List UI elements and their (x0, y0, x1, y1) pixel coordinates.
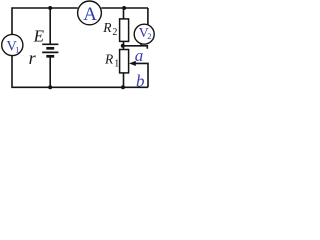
wire node to V2 bottom (124, 46, 148, 49)
junction R2 top (122, 6, 126, 10)
battery E,r (42, 44, 58, 56)
wire V2 bottom lead (140, 44, 142, 46)
svg-text:r: r (29, 48, 37, 68)
wire battery bottom lead (49, 56, 51, 87)
svg-text:1: 1 (114, 59, 119, 70)
wire left-edge below V1 (12, 56, 50, 88)
wire R1 bottom lead (123, 73, 125, 87)
wire top-right segment (101, 7, 148, 9)
junction node N (121, 44, 125, 48)
resistor R2 (102, 19, 128, 42)
junction battery top (48, 6, 52, 10)
voltmeter V2 (134, 24, 154, 44)
wire top-left segment (12, 8, 78, 35)
svg-text:1: 1 (15, 45, 19, 55)
voltmeter V1 (2, 34, 23, 55)
svg-text:a: a (135, 46, 144, 65)
wire battery top lead (49, 8, 51, 44)
wire right-edge down to V2 (147, 8, 149, 25)
wire wiper to right edge (135, 63, 148, 87)
svg-text:R: R (102, 20, 112, 35)
wire bottom segment (50, 86, 148, 88)
junction R1 bottom (121, 85, 125, 89)
svg-text:2: 2 (112, 27, 117, 38)
svg-text:E: E (33, 26, 45, 45)
wiper arrowhead (129, 61, 136, 66)
svg-text:A: A (83, 4, 97, 25)
svg-text:R: R (104, 51, 114, 66)
svg-text:b: b (136, 72, 145, 91)
wire R2 top lead (123, 8, 125, 19)
junction battery bottom (48, 85, 52, 89)
svg-text:2: 2 (147, 31, 151, 41)
resistor R1 (104, 50, 129, 73)
wire R2 bottom lead to node (123, 41, 125, 49)
ammeter A (78, 1, 102, 25)
